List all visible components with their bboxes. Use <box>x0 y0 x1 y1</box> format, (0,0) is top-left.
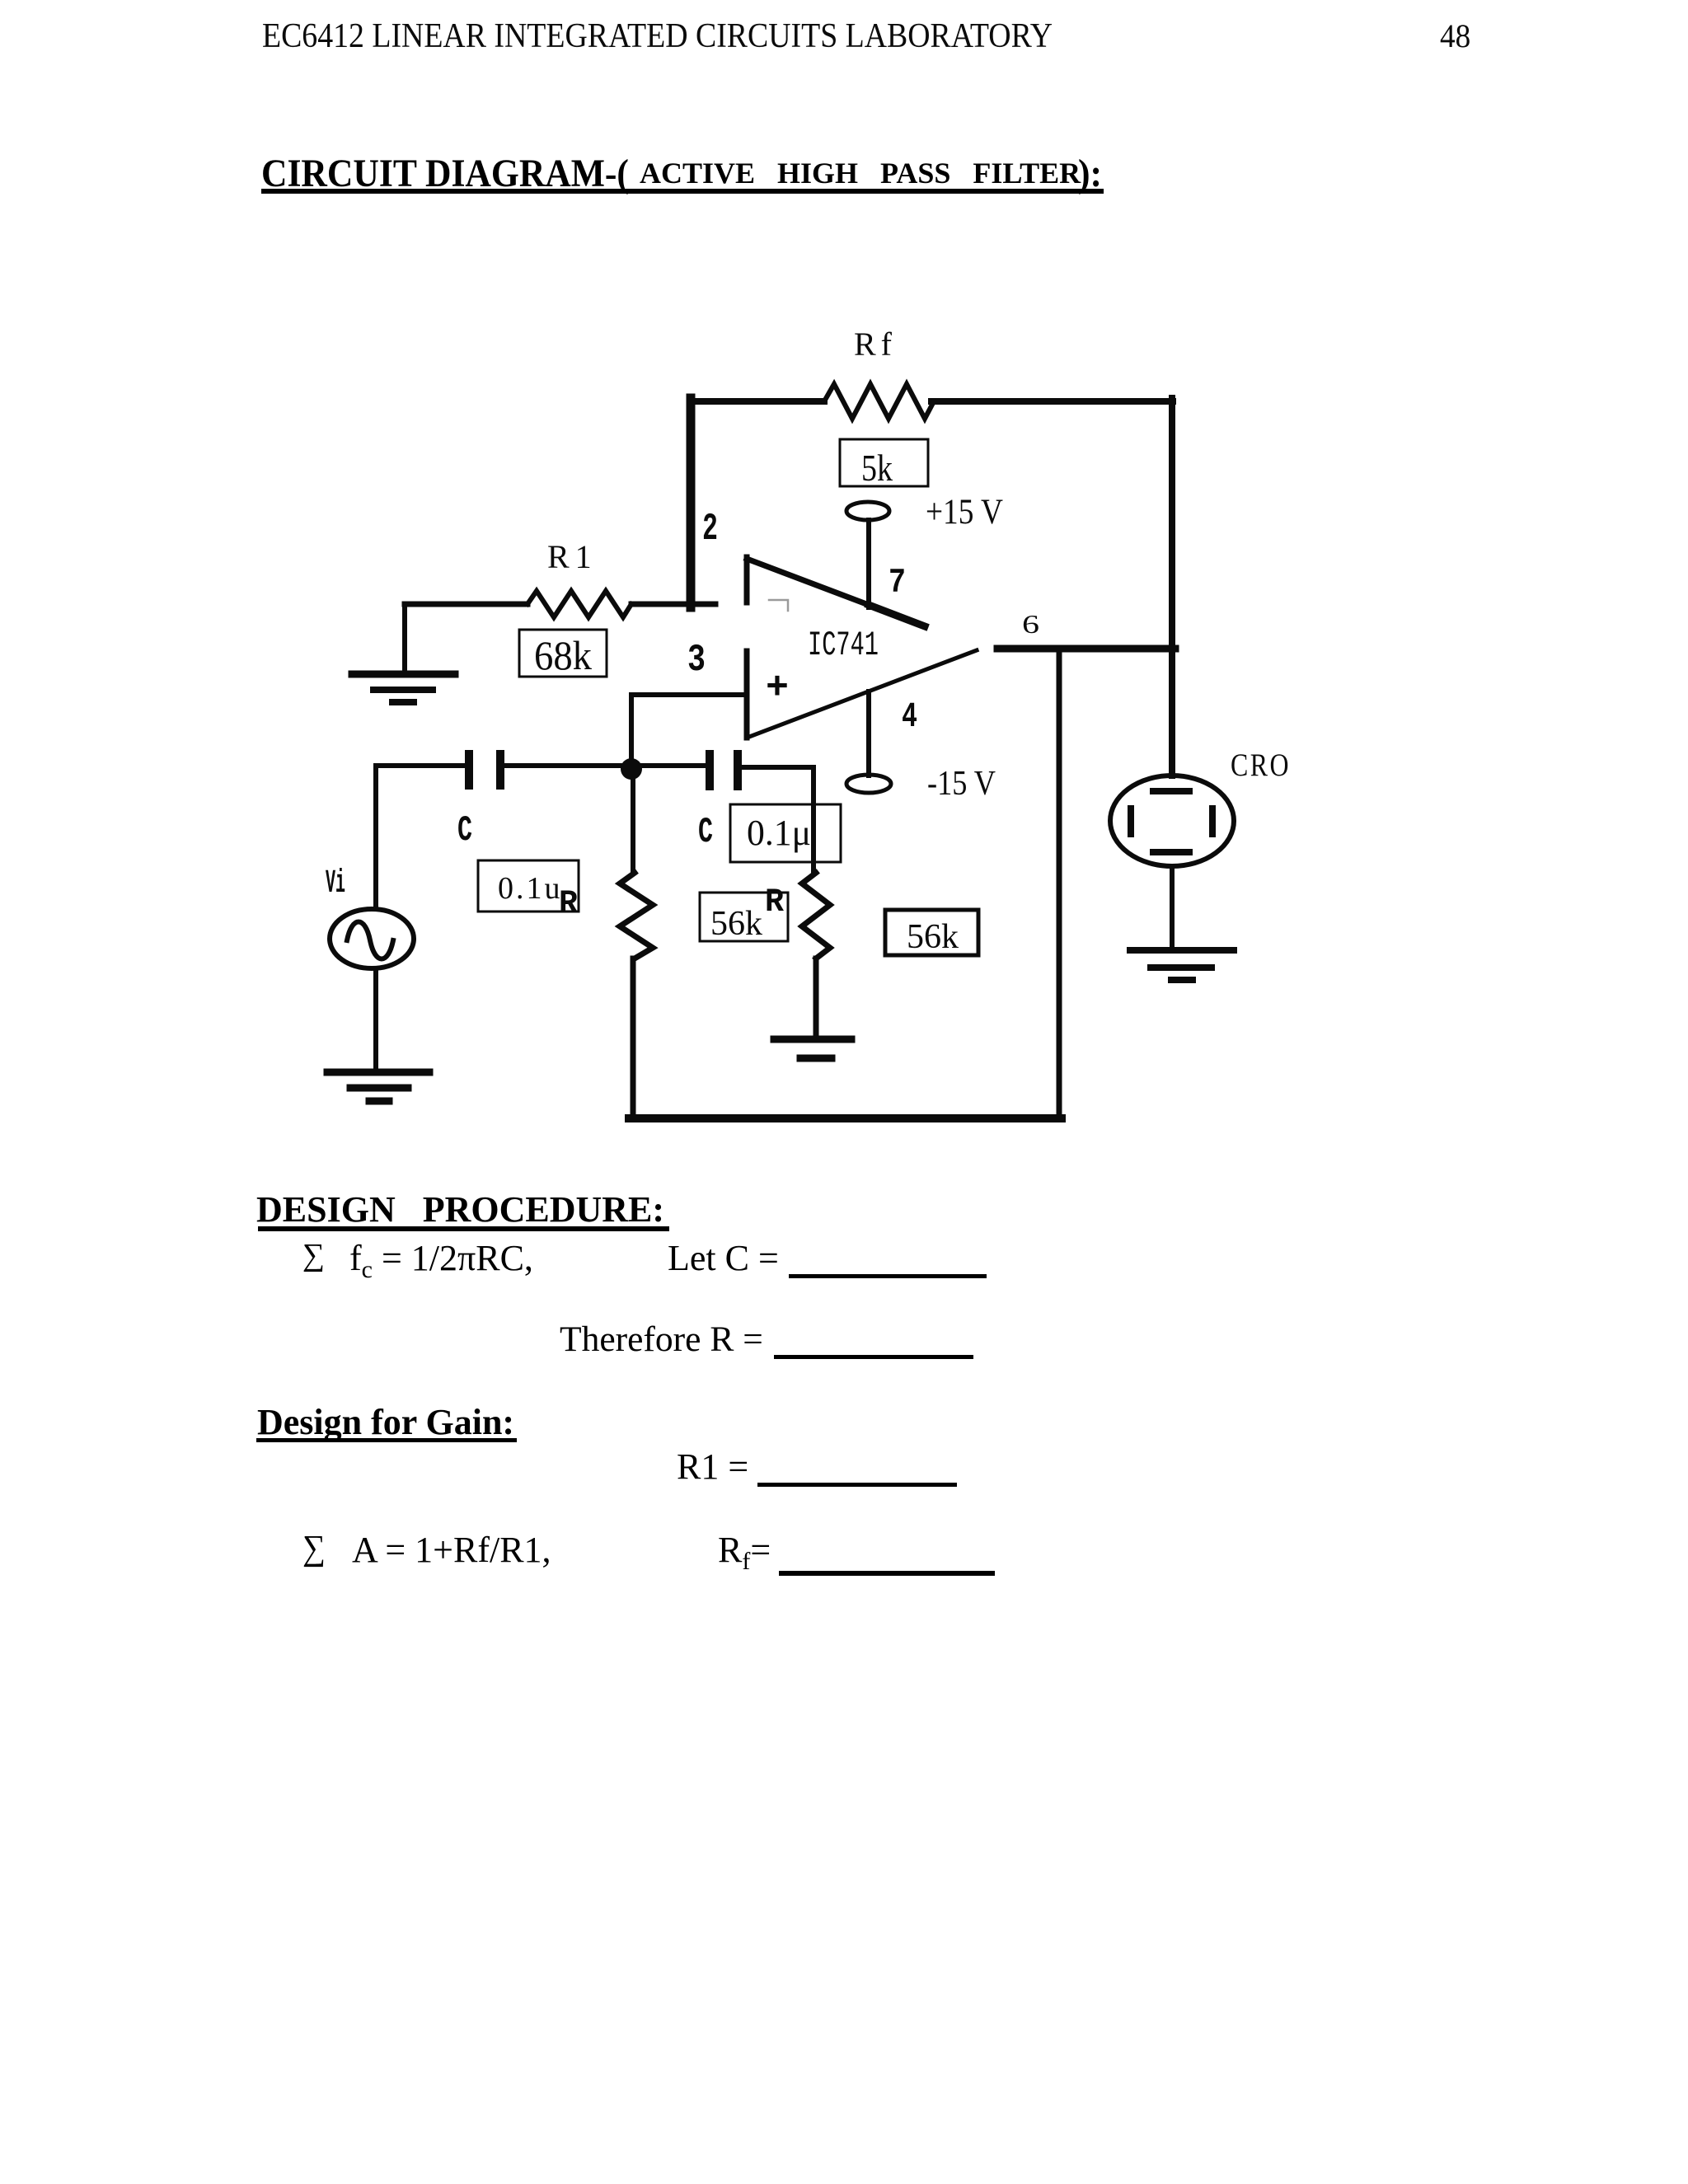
svg-text:R: R <box>765 884 784 921</box>
resistor R (56k left) <box>620 873 653 958</box>
title part 3 <box>1078 154 1102 194</box>
svg-text:C: C <box>698 812 713 853</box>
svg-text:Rf: Rf <box>854 326 897 363</box>
wire pin3 <box>631 692 747 697</box>
wire feedback down <box>1057 649 1062 1118</box>
wire right vertical <box>1169 398 1175 776</box>
CRO screen bars <box>1128 788 1216 855</box>
CRO circle <box>1110 776 1234 866</box>
svg-text:5k: 5k <box>861 448 893 489</box>
wire C2 to R2 <box>742 767 814 873</box>
svg-text:CRO: CRO <box>1231 748 1291 783</box>
value box 0.1u left <box>478 860 579 912</box>
value box 5k <box>840 439 928 486</box>
wire output pin6 <box>997 645 1175 653</box>
svg-text:R: R <box>559 886 578 923</box>
wire C1 to node <box>504 763 621 768</box>
wire top feedback left segment <box>690 398 824 405</box>
svg-text:2: 2 <box>702 508 718 551</box>
svg-text:R1: R1 <box>547 538 598 575</box>
formula line 4 <box>302 1530 326 1566</box>
wire Vi bottom <box>373 969 378 1071</box>
wire pin4 <box>866 691 871 776</box>
Design for Gain heading <box>257 1404 514 1441</box>
wire left vertical (pin2 riser) <box>687 398 696 607</box>
svg-text:68k: 68k <box>534 632 592 678</box>
formula line 3 <box>677 1449 748 1485</box>
wire R1 to pin2 junction <box>631 602 715 607</box>
wire R to bottom <box>631 958 636 1118</box>
resistor R1 <box>527 591 631 617</box>
op-amp minus artifact <box>769 600 788 611</box>
svg-text:+15 V: +15 V <box>926 493 1003 532</box>
power -15 terminal <box>846 775 891 793</box>
value box 56k right <box>885 910 978 955</box>
wire pin7 <box>866 520 871 607</box>
wire Vi top <box>376 766 465 908</box>
wire node to R <box>631 780 635 873</box>
svg-text:56k: 56k <box>907 918 959 956</box>
wire CRO to ground <box>1170 868 1175 948</box>
svg-text:IC741: IC741 <box>808 626 879 665</box>
wire ground stem left <box>402 604 407 673</box>
wire node riser <box>629 695 634 766</box>
svg-text:4: 4 <box>902 696 917 737</box>
capacitor C2 plates <box>706 750 742 790</box>
formula line 1 <box>302 1240 325 1271</box>
DESIGN PROCEDURE heading <box>256 1192 664 1228</box>
source Vi circle <box>330 909 414 968</box>
svg-text:7: 7 <box>889 563 906 602</box>
capacitor C1 plates <box>465 750 504 790</box>
svg-text:3: 3 <box>687 639 706 682</box>
ground left bars <box>352 671 455 678</box>
value box 56k left <box>700 893 788 941</box>
svg-text:+: + <box>766 667 789 710</box>
formula line 2 <box>560 1322 763 1358</box>
svg-text:0.1μ: 0.1μ <box>747 813 811 853</box>
title part 2 <box>640 158 1081 188</box>
svg-text:0.1u: 0.1u <box>498 871 563 906</box>
title part 1 <box>261 154 629 194</box>
resistor Rf <box>824 384 934 419</box>
svg-text:C: C <box>457 810 472 851</box>
svg-text:-15 V: -15 V <box>927 765 996 803</box>
ground Vi bars <box>327 1069 429 1076</box>
ground R2 bars <box>774 1036 851 1043</box>
wire node to C2 <box>642 763 706 768</box>
value box 0.1u right <box>730 804 841 862</box>
svg-text:56k: 56k <box>710 905 762 943</box>
wire R2 to ground <box>814 958 819 1036</box>
title underline <box>261 189 1104 194</box>
node junction dot <box>621 758 642 780</box>
wire R1 left <box>405 602 527 607</box>
op-amp U1 body <box>744 557 750 602</box>
power +15 terminal <box>846 502 889 520</box>
source sine <box>347 922 393 959</box>
svg-text:6: 6 <box>1022 609 1039 639</box>
svg-text:Vi: Vi <box>326 865 345 902</box>
wire top feedback right segment <box>931 398 1173 405</box>
header <box>262 19 1053 54</box>
wire bottom return <box>629 1114 1062 1122</box>
resistor R2 (56k right) <box>802 873 830 958</box>
page number <box>1440 20 1470 53</box>
value box 68k <box>519 630 607 677</box>
ground CRO bars <box>1130 947 1234 954</box>
